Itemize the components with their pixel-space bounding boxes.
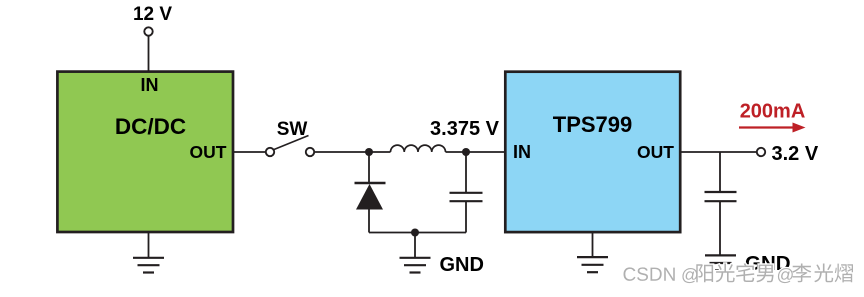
svg-text:TPS799: TPS799 bbox=[553, 112, 633, 137]
inductor L bbox=[391, 145, 446, 152]
node inductor/capacitor junction (3.375 V node) bbox=[462, 148, 470, 156]
output terminal (3.2 V) bbox=[757, 148, 765, 156]
wire TPS799 OUT to output terminal bbox=[681, 151, 758, 153]
wire DC/DC OUT to switch bbox=[233, 151, 266, 153]
svg-text:3.2 V: 3.2 V bbox=[772, 143, 819, 165]
svg-text:12 V: 12 V bbox=[133, 4, 172, 25]
ground (middle) bbox=[400, 258, 431, 273]
svg-text:3.375 V: 3.375 V bbox=[430, 118, 500, 140]
ground (TPS799) bbox=[577, 257, 608, 272]
ground (output capacitor) bbox=[705, 255, 736, 270]
diode D (catch diode) bbox=[355, 152, 386, 233]
switch SW bbox=[266, 136, 314, 157]
wire TPS799 bottom to ground bbox=[592, 233, 594, 257]
capacitor C2 (output) bbox=[705, 152, 737, 255]
wire DC/DC bottom to ground bbox=[148, 233, 150, 258]
svg-text:OUT: OUT bbox=[637, 142, 674, 162]
wire switch to inductor bbox=[314, 151, 391, 153]
svg-text:SW: SW bbox=[277, 119, 308, 140]
svg-text:DC/DC: DC/DC bbox=[115, 114, 186, 139]
capacitor C1 bbox=[450, 152, 483, 233]
svg-text:200mA: 200mA bbox=[740, 101, 806, 123]
wire 12V terminal to DC/DC IN bbox=[148, 36, 150, 72]
ground (DC/DC) bbox=[133, 258, 164, 273]
supply terminal (12 V) bbox=[144, 27, 152, 35]
svg-text:IN: IN bbox=[141, 75, 159, 95]
svg-text:GND: GND bbox=[440, 254, 484, 276]
node bottom rail ground junction bbox=[411, 229, 419, 237]
block TPS799 LDO bbox=[505, 72, 680, 232]
svg-text:OUT: OUT bbox=[190, 142, 227, 162]
wire inductor to TPS799 IN bbox=[446, 151, 506, 153]
current arrow 200mA bbox=[739, 123, 806, 133]
block DC/DC converter bbox=[57, 72, 233, 232]
wire rail junction to ground bbox=[414, 233, 416, 258]
svg-text:IN: IN bbox=[513, 142, 531, 162]
node switch/diode junction bbox=[365, 148, 373, 156]
wire bottom rail (diode to capacitor) bbox=[369, 232, 466, 234]
